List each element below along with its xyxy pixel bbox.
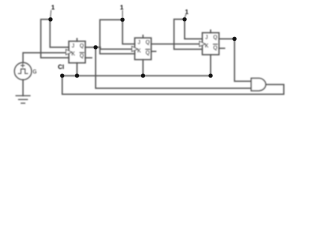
svg-text:Q: Q: [213, 45, 217, 51]
svg-text:Q: Q: [146, 50, 150, 56]
U3 label Qbar (glyph + overbar): [213, 44, 217, 51]
junction dot clear bus at U3: [209, 74, 213, 78]
JK flip-flop U3 (box): [202, 33, 219, 55]
svg-text:G: G: [33, 70, 37, 76]
wire node2 to K2 input (left branch): [100, 20, 135, 54]
AND gate U4 (body): [251, 78, 266, 90]
junction dot node3 (input 1 of U3): [183, 17, 187, 21]
junction dot clear bus left corner: [60, 74, 64, 78]
wire AND gate output feedback loop to clear bus: [62, 76, 284, 95]
wire node Q1 to U2 clock input (jog): [96, 47, 132, 49]
logic high input "1" for U3 (label + lead stem): [185, 9, 189, 17]
U2 clear pin wire (bottom) to clear bus: [142, 60, 144, 76]
wire node1 to J1 input (down branch): [50, 19, 69, 47]
junction dot clear bus at U2: [141, 74, 145, 78]
junction dot node2 (input 1 of U2): [120, 18, 124, 22]
ground symbol (three bars): [16, 96, 30, 104]
svg-text:Cl: Cl: [58, 64, 64, 71]
wire source G bottom terminal to ground: [22, 80, 24, 96]
wire node Q1 down and right to AND gate input B: [96, 47, 252, 88]
svg-text:Q: Q: [80, 54, 84, 60]
svg-text:J: J: [72, 43, 75, 49]
svg-text:K: K: [72, 52, 76, 58]
JK flip-flop U1 (box): [69, 41, 86, 63]
wire node3 to J3 input (down branch): [185, 19, 203, 39]
svg-text:Q: Q: [146, 40, 150, 46]
square-wave glyph inside source G: [18, 69, 27, 74]
U3 Q output stub to node Q3: [219, 38, 235, 40]
U1 label Qbar (glyph + overbar): [80, 53, 84, 60]
junction dot node Q3: [232, 37, 236, 41]
JK flip-flop U2 (box): [135, 38, 152, 60]
U3 Qbar output stub: [219, 47, 225, 49]
U1 Q output stub to node Q1: [85, 46, 95, 48]
U3 preset pin stub (top): [210, 30, 212, 33]
svg-text:1: 1: [120, 4, 124, 11]
logic high input "1" for U2 (label + lead stem): [120, 4, 124, 17]
svg-text:J: J: [205, 35, 208, 41]
U1 clear pin wire (bottom) to clear bus: [76, 63, 78, 76]
svg-text:Q: Q: [213, 35, 217, 41]
junction dot node1 (input 1 of U1): [48, 17, 52, 21]
U1 clock chevron: [66, 49, 72, 54]
U3 clock chevron: [199, 41, 205, 46]
svg-text:Q: Q: [80, 43, 84, 49]
wire node1 to K1 input (left branch): [41, 19, 69, 57]
U2 preset pin stub (top): [142, 35, 144, 38]
U2 Qbar output stub: [151, 50, 156, 52]
wire node Q3 down and right to AND gate input A: [235, 39, 252, 81]
junction dot node Q1: [94, 45, 98, 49]
U2 label Qbar (glyph + overbar): [146, 49, 150, 56]
svg-text:J: J: [138, 40, 141, 46]
junction dot clear bus at U1: [75, 74, 79, 78]
clear bus wire along flip-flop clear pins: [62, 75, 210, 77]
wire node2 to J2 input (down branch): [123, 20, 135, 44]
svg-text:1: 1: [51, 4, 55, 11]
square-wave clock source G (circle body): [14, 63, 31, 80]
wire U2 Q output to U3 clock input: [151, 43, 199, 45]
wire source G top terminal to U1 clock input: [23, 53, 66, 63]
plus sign inside source G: [21, 64, 24, 67]
U3 clear pin wire (bottom) to clear bus: [210, 55, 212, 76]
logic high input "1" for U1 (label + lead stem): [51, 4, 56, 17]
U1 Qbar output stub: [85, 57, 91, 59]
U1 preset pin stub (top): [76, 39, 78, 42]
wire node3 to K3 input (left branch): [174, 19, 202, 49]
U2 clock chevron: [132, 46, 138, 51]
